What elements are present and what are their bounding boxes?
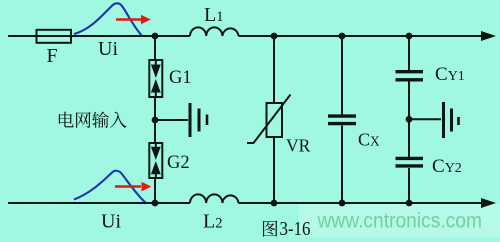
ground (left) xyxy=(189,103,192,137)
surge waveform bottom (blue) xyxy=(74,171,146,203)
node junction bottom x=155 xyxy=(152,200,159,207)
wire G branch middle xyxy=(154,97,156,143)
node junction top x=409 xyxy=(406,33,413,40)
node junction top x=342 xyxy=(339,33,346,40)
inductor L1 xyxy=(190,27,239,36)
caption figure 3-16 xyxy=(263,219,311,240)
node junction bottom x=342 xyxy=(339,200,346,207)
svg-text:VR: VR xyxy=(286,136,311,156)
wire bottom rail left segment xyxy=(8,202,190,204)
watermark backdrop xyxy=(299,204,500,237)
node junction top x=274 xyxy=(271,33,278,40)
wire CY branch upper xyxy=(408,36,410,70)
red arrow bottom xyxy=(115,185,141,188)
wire G branch lower xyxy=(154,178,156,203)
node junction top x=155 xyxy=(152,33,159,40)
wire CY branch middle xyxy=(408,82,410,158)
wire top rail right segment xyxy=(239,35,484,37)
node junction bottom x=274 xyxy=(271,200,278,207)
svg-text:Ui: Ui xyxy=(101,211,121,233)
fuse F xyxy=(37,30,72,43)
wire CY branch lower xyxy=(408,168,410,203)
inductor L2 xyxy=(190,194,239,203)
capacitor CY2 xyxy=(396,157,424,160)
wire VR branch lower xyxy=(273,137,275,203)
svg-text:G2: G2 xyxy=(167,153,190,173)
gas discharge tube G1 xyxy=(149,60,162,97)
wire ground stub left xyxy=(155,119,188,121)
wire ground stub right xyxy=(409,118,441,120)
red arrow top xyxy=(116,18,141,21)
svg-text:www.cntronics.com: www.cntronics.com xyxy=(317,209,482,233)
wire top rail left segment xyxy=(8,35,190,37)
svg-text:G1: G1 xyxy=(169,68,192,88)
capacitor CX xyxy=(328,114,356,117)
bottom rail output arrowhead xyxy=(481,198,496,208)
svg-text:F: F xyxy=(47,45,58,67)
node junction bottom x=409 xyxy=(406,200,413,207)
wire G branch upper xyxy=(154,36,156,60)
varistor VR xyxy=(267,103,283,137)
svg-text:3-16: 3-16 xyxy=(280,219,311,237)
svg-text:Ui: Ui xyxy=(98,38,118,60)
node junction G mid xyxy=(152,117,159,124)
node junction CY mid xyxy=(406,116,413,123)
capacitor CY1 xyxy=(396,70,424,73)
text dianwangshuru (grid input) xyxy=(59,111,127,127)
wire VR branch upper xyxy=(273,36,275,103)
gas discharge tube G2 xyxy=(149,143,162,178)
surge waveform top (blue) xyxy=(74,3,142,36)
ground (right) xyxy=(442,102,445,138)
wire bottom rail right segment xyxy=(239,202,484,204)
top rail output arrowhead xyxy=(481,31,496,41)
wire CX branch lower xyxy=(341,126,343,204)
wire CX branch upper xyxy=(341,36,343,115)
